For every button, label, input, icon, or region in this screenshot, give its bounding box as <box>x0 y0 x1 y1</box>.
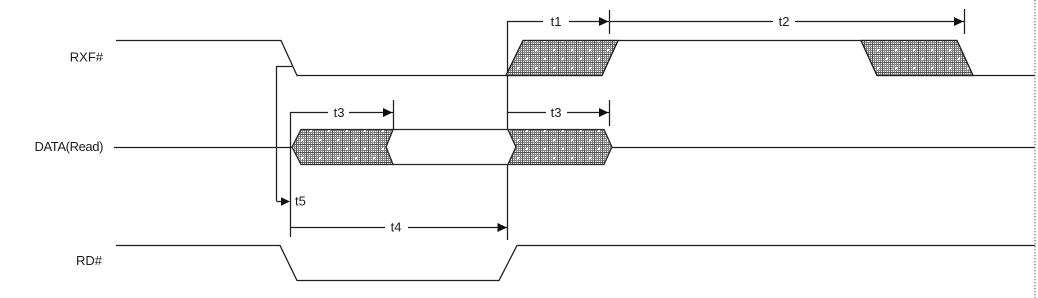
svg-text:t1: t1 <box>551 14 562 29</box>
svg-text:t4: t4 <box>391 220 402 235</box>
svg-text:t2: t2 <box>779 14 790 29</box>
svg-text:DATA(Read): DATA(Read) <box>35 139 104 154</box>
svg-text:t3: t3 <box>551 105 562 120</box>
svg-text:t5: t5 <box>295 194 306 209</box>
svg-text:t3: t3 <box>334 105 345 120</box>
svg-text:RD#: RD# <box>76 253 103 268</box>
svg-text:RXF#: RXF# <box>70 50 104 65</box>
